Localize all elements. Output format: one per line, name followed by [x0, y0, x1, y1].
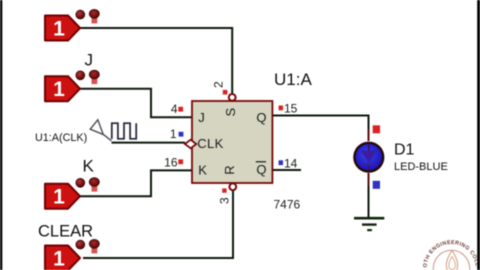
- svg-text:14: 14: [284, 157, 298, 171]
- svg-text:D1: D1: [394, 142, 415, 159]
- svg-text:K: K: [83, 157, 95, 176]
- svg-text:16: 16: [164, 156, 178, 170]
- svg-text:1: 1: [170, 127, 177, 141]
- svg-text:S: S: [223, 108, 238, 117]
- svg-text:CLEAR: CLEAR: [38, 223, 93, 241]
- svg-text:CLK: CLK: [197, 136, 223, 151]
- svg-text:4: 4: [171, 102, 178, 116]
- svg-text:U1:A: U1:A: [274, 70, 312, 89]
- svg-text:U1:A(CLK): U1:A(CLK): [35, 132, 87, 144]
- svg-text:1: 1: [53, 18, 65, 41]
- svg-text:J: J: [198, 110, 205, 125]
- svg-text:Q: Q: [256, 162, 266, 177]
- svg-text:R: R: [222, 165, 237, 174]
- svg-text:J: J: [85, 51, 94, 70]
- svg-text:7476: 7476: [274, 198, 301, 212]
- svg-text:3: 3: [217, 197, 231, 204]
- svg-text:LED-BLUE: LED-BLUE: [394, 161, 448, 173]
- svg-text:K: K: [198, 163, 207, 178]
- svg-text:Q: Q: [256, 110, 266, 125]
- svg-text:2: 2: [212, 81, 226, 88]
- svg-text:15: 15: [284, 102, 298, 116]
